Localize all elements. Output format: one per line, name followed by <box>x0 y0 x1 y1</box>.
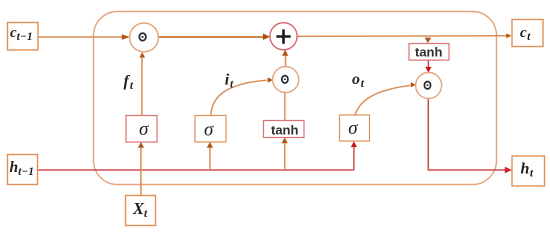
svg-text:σ: σ <box>204 119 214 140</box>
svg-text:ft: ft <box>124 73 134 92</box>
svg-text:tanh: tanh <box>271 122 299 137</box>
svg-text:σ: σ <box>139 119 149 140</box>
svg-text:tanh: tanh <box>415 44 443 59</box>
svg-text:σ: σ <box>348 118 358 139</box>
svg-text:it: it <box>225 72 234 91</box>
svg-text:ot: ot <box>352 71 365 90</box>
